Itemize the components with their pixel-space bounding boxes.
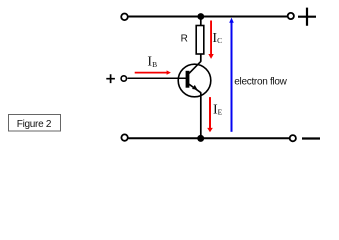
svg-text:electron flow: electron flow bbox=[234, 77, 287, 88]
svg-text:Figure 2: Figure 2 bbox=[17, 119, 52, 130]
svg-text:R: R bbox=[181, 34, 188, 45]
